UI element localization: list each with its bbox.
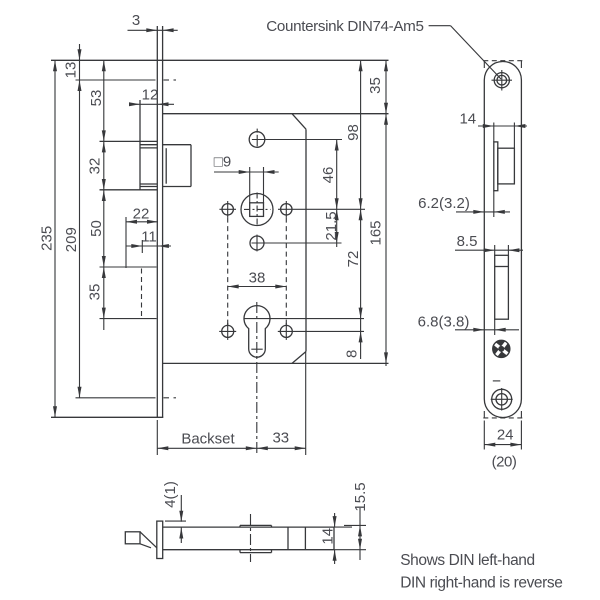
- dim 12 latch width: [129, 103, 174, 105]
- latch opening bevel strip: [494, 142, 498, 191]
- top hole vertical tick: [256, 129, 258, 133]
- svg-text:24: 24: [497, 426, 514, 443]
- svg-text:32: 32: [86, 158, 103, 175]
- dim 22: [126, 221, 158, 223]
- case right edge extension to Backset dim: [305, 352, 307, 455]
- latch bolt body top line right: [163, 144, 191, 146]
- svg-text:35: 35: [367, 77, 384, 94]
- svg-text:6.2(3.2): 6.2(3.2): [418, 195, 470, 212]
- left fixing hole at cylinder: [222, 325, 234, 337]
- svg-text:22: 22: [133, 205, 150, 222]
- svg-text:38: 38: [249, 269, 266, 286]
- side view centreline: [250, 514, 252, 562]
- centre mark bottom screw hole: [76, 397, 156, 399]
- right fixing hole at cylinder: [280, 325, 292, 337]
- side view internal edges: [287, 527, 289, 550]
- plate mid tick: [493, 380, 501, 382]
- dim chain 53 32 50 35: [103, 60, 105, 330]
- latch bolt body bottom line left: [140, 186, 157, 188]
- svg-text:33: 33: [272, 430, 289, 447]
- dim 6.2(3.2): [456, 211, 510, 213]
- dim 3 faceplate thickness: [128, 29, 178, 31]
- latch bolt left edge / 12-dim extension: [139, 100, 141, 190]
- side view case end: [333, 527, 335, 550]
- dim 24 plate width: [484, 444, 521, 446]
- front view faceplate left edge: [156, 26, 158, 417]
- side view hub top: [240, 524, 272, 526]
- left cylinder hole ticks: [219, 330, 236, 332]
- follower hole: [241, 194, 273, 226]
- follower horizontal centre mark: [244, 208, 271, 210]
- svg-text:12: 12: [142, 87, 159, 104]
- right fixing hole tick and extension line: [278, 208, 365, 210]
- latch bolt top line: [100, 140, 158, 142]
- svg-text:15.5: 15.5: [352, 482, 369, 511]
- follower vertical centre mark: [256, 193, 258, 228]
- leader line countersink: [429, 25, 451, 27]
- svg-text:DIN right-hand is reverse: DIN right-hand is reverse: [400, 575, 562, 592]
- left fixing hole at follower: [222, 204, 233, 215]
- svg-text:14: 14: [459, 110, 476, 127]
- right fixing hole at follower: [281, 204, 292, 215]
- svg-text:235: 235: [39, 226, 56, 251]
- dim 98 72 8 line: [360, 60, 362, 359]
- front view faceplate bottom cap: [51, 416, 163, 418]
- dashed square end bottom: [483, 417, 522, 419]
- latch bolt chamfer line lower: [140, 183, 157, 185]
- svg-text:(20): (20): [492, 453, 517, 470]
- svg-text:14: 14: [320, 528, 337, 545]
- side view case bottom: [163, 549, 334, 551]
- dashed square end top: [483, 60, 522, 62]
- svg-text:3: 3: [132, 12, 140, 29]
- side view latch bolt tip: [125, 532, 140, 544]
- hole below follower: [250, 236, 264, 250]
- top hole horizontal centre line and extension: [252, 139, 342, 141]
- dim 14 latch: [478, 125, 527, 127]
- latch bolt body right edge: [190, 145, 192, 187]
- vertical centreline of lock: [256, 302, 258, 455]
- svg-text:46: 46: [320, 167, 337, 184]
- dim 11: [126, 245, 171, 247]
- svg-text:72: 72: [345, 251, 362, 268]
- latch bolt chamfer line upper: [140, 147, 157, 149]
- latch bolt bottom line: [100, 189, 158, 191]
- hole below follower ticks and extension: [252, 242, 342, 244]
- cylinder horizontal centre line and extension: [244, 318, 364, 320]
- side view faceplate strip: [157, 521, 163, 558]
- side view hub bottom: [240, 552, 272, 554]
- centre mark top screw hole: [76, 79, 156, 81]
- svg-text:53: 53: [88, 90, 105, 107]
- dashed hidden line x141: [141, 269, 143, 318]
- dim 13 with 209 dimension line: [79, 44, 81, 398]
- svg-text:209: 209: [63, 227, 80, 252]
- face plate outline right view: [484, 62, 521, 418]
- svg-text:□9: □9: [214, 153, 231, 170]
- dim Backset and 33: [157, 447, 305, 449]
- svg-text:11: 11: [141, 228, 157, 245]
- svg-text:Countersink DIN74-Am5: Countersink DIN74-Am5: [266, 18, 423, 35]
- latch bolt body inner edge: [165, 148, 167, 184]
- top hole: [249, 132, 265, 148]
- right cylinder hole tick and extension: [278, 330, 364, 332]
- front view top edge line: [51, 59, 389, 61]
- latch opening face: [498, 148, 515, 184]
- svg-text:50: 50: [88, 220, 105, 237]
- latch bolt body top line left: [140, 144, 157, 146]
- dim 6.8(3.8): [455, 329, 519, 331]
- svg-text:4(1): 4(1): [162, 481, 179, 508]
- dim 4(1): [180, 495, 182, 522]
- lock case top-right chamfer: [292, 114, 306, 130]
- svg-text:98: 98: [345, 124, 362, 141]
- countersunk screw hole top: [494, 73, 509, 88]
- side view case top: [163, 526, 334, 528]
- euro profile cylinder hole: [244, 306, 270, 358]
- cylinder stem tick: [251, 348, 262, 350]
- svg-text:Backset: Backset: [181, 431, 235, 448]
- lock case bottom edge: [163, 362, 389, 364]
- follower square hole 9mm: [250, 203, 264, 217]
- svg-text:165: 165: [367, 220, 384, 245]
- cylinder slot in plate: [495, 255, 509, 319]
- lock case right edge: [305, 129, 307, 351]
- svg-text:8.5: 8.5: [457, 233, 478, 250]
- dim 15.5: [359, 508, 361, 560]
- self tapping screw hole: [486, 333, 517, 364]
- svg-text:13: 13: [62, 62, 79, 79]
- dim 46 21.5 line: [336, 140, 338, 248]
- countersunk screw hole bottom: [492, 389, 512, 409]
- latch bolt body bottom line right: [163, 186, 191, 188]
- dim 8.5: [455, 249, 523, 251]
- left fixing hole ticks: [219, 208, 236, 210]
- reference line y318 left: [100, 318, 157, 320]
- reference line y267: [100, 266, 157, 268]
- dim 38: [228, 286, 287, 288]
- svg-text:6.8(3.8): 6.8(3.8): [418, 314, 470, 331]
- lock case top edge: [163, 113, 389, 115]
- dashed construction line left: [227, 218, 229, 325]
- front view faceplate right edge: [162, 26, 164, 417]
- svg-text:Shows DIN left-hand: Shows DIN left-hand: [400, 552, 535, 569]
- dim 14 side view: [334, 513, 336, 527]
- lock case bottom-right chamfer: [292, 352, 306, 364]
- svg-text:8: 8: [344, 350, 361, 358]
- dim 235 overall length: [54, 60, 56, 417]
- dim 35 165 line: [385, 60, 387, 366]
- svg-text:35: 35: [86, 284, 103, 301]
- svg-text:21.5: 21.5: [323, 211, 340, 240]
- side view latch bevel: [140, 532, 157, 548]
- dashed construction line right: [285, 218, 287, 325]
